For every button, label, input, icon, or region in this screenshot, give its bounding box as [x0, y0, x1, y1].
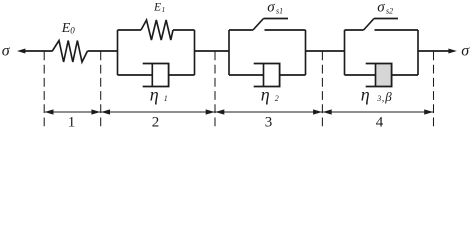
svg-text:β: β [384, 89, 392, 104]
wire box3 to box4 [306, 50, 345, 52]
svg-text:s1: s1 [276, 6, 283, 15]
svg-text:3: 3 [265, 115, 273, 131]
label sigma_s1 [267, 0, 283, 16]
dashpot eta3 (gray filled) [345, 64, 419, 87]
wire spring E0 to box 2 [88, 50, 118, 52]
wire box2 to box3 [195, 50, 230, 52]
svg-text:1: 1 [164, 94, 168, 103]
label eta1 [150, 85, 168, 105]
friction slider sigma_s2 [345, 19, 419, 31]
svg-text:4: 4 [376, 115, 384, 131]
svg-text:σ: σ [2, 42, 11, 59]
svg-text:1: 1 [162, 5, 166, 14]
svg-text:σ: σ [377, 0, 385, 16]
stress arrow right [418, 49, 457, 54]
svg-text:E: E [153, 2, 161, 14]
svg-text:η: η [261, 85, 270, 105]
label E0 [61, 21, 76, 36]
label eta3,beta [361, 85, 392, 105]
svg-text:E: E [61, 21, 71, 36]
box 3 frame [229, 30, 306, 75]
svg-text:η: η [150, 85, 159, 105]
dashed node line D [321, 52, 323, 128]
label E1 [153, 2, 165, 15]
dashpot eta1 [118, 64, 195, 87]
dimension arrow segment 4 [323, 109, 434, 114]
spring E1 [141, 20, 173, 40]
svg-text:σ: σ [267, 0, 275, 16]
spring E0 [52, 41, 87, 63]
box 4 frame [345, 30, 419, 75]
dashed node line E [433, 52, 435, 128]
label eta2 [261, 85, 279, 105]
svg-text:σ: σ [461, 42, 470, 59]
svg-text:s2: s2 [386, 6, 393, 15]
svg-text:0: 0 [70, 25, 75, 35]
dashpot eta2 [229, 64, 306, 87]
svg-text:,: , [382, 93, 385, 104]
dashed node line B [100, 52, 102, 128]
svg-text:η: η [361, 85, 370, 105]
svg-text:2: 2 [275, 94, 279, 103]
dashed node line C [214, 52, 216, 128]
svg-text:1: 1 [68, 115, 76, 131]
svg-text:2: 2 [152, 115, 160, 131]
dimension arrow segment 1 [45, 109, 101, 114]
friction slider sigma_s1 [229, 19, 306, 31]
stress arrow left [17, 49, 53, 54]
dashed node line A [43, 52, 45, 128]
node 2 / box 2 frame [118, 30, 195, 75]
svg-text:3: 3 [376, 94, 381, 103]
dimension arrow segment 3 [215, 109, 322, 114]
label sigma_s2 [377, 0, 393, 16]
dimension arrow segment 2 [101, 109, 215, 114]
